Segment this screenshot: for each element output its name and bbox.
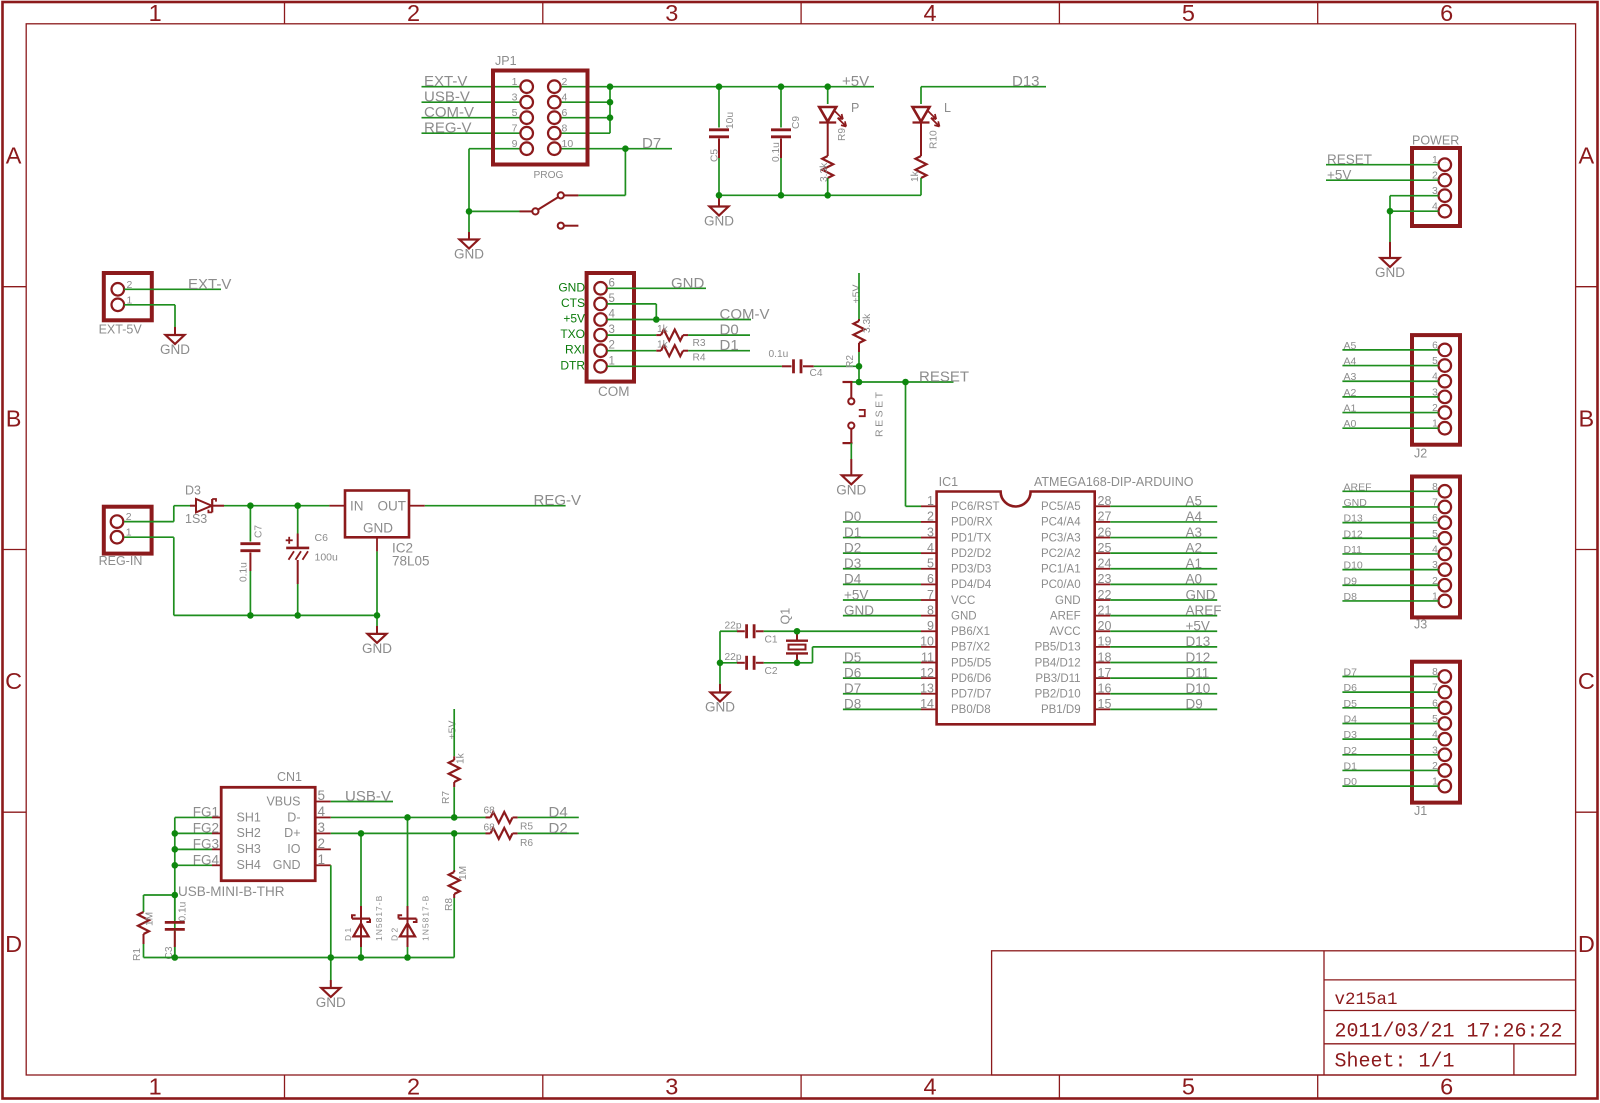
svg-text:0.1u: 0.1u [771,142,782,162]
svg-text:SH4: SH4 [237,858,261,872]
svg-text:A: A [1579,143,1595,169]
svg-text:GND: GND [951,610,977,622]
svg-text:68: 68 [484,805,496,816]
svg-text:FG3: FG3 [193,836,219,851]
svg-text:R8: R8 [444,898,455,911]
svg-text:D1: D1 [720,337,739,354]
svg-text:12: 12 [920,666,934,680]
svg-text:20: 20 [1098,619,1112,633]
svg-text:15: 15 [1098,697,1112,711]
svg-text:P: P [851,101,859,115]
svg-text:COM: COM [598,384,630,399]
svg-text:19: 19 [1098,635,1112,649]
svg-text:22p: 22p [725,652,742,663]
svg-text:B: B [6,406,22,432]
svg-text:REG-V: REG-V [534,492,582,509]
svg-text:0.1u: 0.1u [239,562,250,582]
svg-text:GND: GND [273,858,301,872]
svg-text:GND: GND [704,214,734,229]
svg-text:1k: 1k [657,340,669,351]
svg-text:D3: D3 [1344,729,1358,741]
svg-text:1S3: 1S3 [185,512,207,526]
svg-text:3: 3 [665,1073,678,1099]
svg-text:C: C [1578,668,1595,694]
svg-text:D0: D0 [1344,776,1358,788]
svg-text:8: 8 [927,603,934,617]
svg-text:SH3: SH3 [237,842,261,856]
svg-text:A1: A1 [1186,556,1203,571]
svg-text:R2: R2 [845,355,856,368]
svg-text:D1: D1 [844,525,861,540]
svg-text:1k: 1k [910,170,921,182]
svg-text:D: D [5,931,22,957]
svg-text:D6: D6 [1344,682,1358,694]
svg-text:J1: J1 [1414,804,1427,818]
svg-text:0.1u: 0.1u [178,902,189,922]
svg-text:1k: 1k [657,324,669,335]
svg-text:D 1: D 1 [343,928,353,942]
svg-text:11: 11 [921,650,934,664]
svg-text:C6: C6 [315,532,329,544]
svg-text:PROG: PROG [533,170,563,181]
svg-text:7: 7 [927,588,934,602]
svg-text:3: 3 [665,0,678,26]
svg-text:D2: D2 [1344,745,1358,757]
svg-text:EXT-V: EXT-V [188,276,231,293]
svg-text:1: 1 [927,494,934,508]
svg-text:PC3/A3: PC3/A3 [1041,532,1081,544]
svg-text:POWER: POWER [1412,134,1459,148]
svg-text:6: 6 [562,107,568,119]
svg-text:8: 8 [562,123,568,135]
svg-text:PC6/RST: PC6/RST [951,501,1000,513]
svg-text:R1: R1 [132,948,143,961]
svg-text:C1: C1 [765,635,778,646]
svg-text:6: 6 [1440,1073,1453,1099]
svg-text:10: 10 [920,635,934,649]
svg-text:GND: GND [1055,595,1081,607]
svg-text:5: 5 [1182,0,1195,26]
svg-text:OUT: OUT [378,499,407,514]
svg-text:JP1: JP1 [495,54,517,68]
svg-text:IC1: IC1 [939,475,959,489]
svg-text:RESET: RESET [919,369,969,386]
svg-text:FG1: FG1 [193,804,219,819]
svg-text:PB3/D11: PB3/D11 [1035,673,1080,685]
svg-text:PD3/D3: PD3/D3 [951,564,991,576]
svg-text:GND: GND [671,275,705,292]
svg-text:D+: D+ [284,826,300,840]
svg-text:Q1: Q1 [779,608,793,625]
svg-text:D9: D9 [1186,697,1203,712]
svg-text:4: 4 [562,92,568,104]
svg-text:2: 2 [562,76,568,88]
svg-text:2: 2 [407,0,420,26]
svg-text:5: 5 [927,557,934,571]
svg-text:D4: D4 [1344,713,1358,725]
svg-text:D0: D0 [720,322,739,339]
svg-text:PD0/RX: PD0/RX [951,517,993,529]
svg-text:100u: 100u [315,552,339,564]
svg-text:FG4: FG4 [193,852,220,867]
svg-text:9: 9 [512,138,518,150]
svg-text:+5V: +5V [842,73,869,90]
svg-text:A0: A0 [1186,572,1203,587]
svg-text:D: D [1578,931,1595,957]
svg-text:D7: D7 [1344,667,1358,679]
svg-text:PB0/D8: PB0/D8 [951,704,991,716]
svg-text:D13: D13 [1344,513,1363,525]
svg-text:R10: R10 [929,130,940,149]
svg-text:+5V: +5V [563,312,585,326]
svg-text:4: 4 [318,804,326,819]
svg-text:+5V: +5V [844,587,868,602]
svg-text:3.3k: 3.3k [862,313,873,333]
svg-text:PB4/D12: PB4/D12 [1035,657,1081,669]
svg-text:RESET: RESET [874,389,886,437]
svg-text:USB-MINI-B-THR: USB-MINI-B-THR [178,884,285,899]
svg-text:D10: D10 [1186,681,1211,696]
svg-text:C7: C7 [254,525,265,538]
svg-text:GND: GND [1375,265,1405,280]
svg-text:RESET: RESET [1327,152,1372,167]
svg-text:R7: R7 [441,791,452,804]
svg-text:D8: D8 [1344,591,1358,603]
svg-text:18: 18 [1098,650,1112,664]
svg-text:+5V: +5V [851,285,863,304]
svg-text:SH1: SH1 [237,810,261,824]
svg-text:R9: R9 [837,128,848,141]
svg-text:C5: C5 [710,149,721,162]
svg-text:EXT-V: EXT-V [424,73,467,90]
svg-text:GND: GND [1186,587,1216,602]
svg-text:A1: A1 [1344,403,1357,415]
svg-text:D5: D5 [844,650,861,665]
svg-text:3: 3 [927,525,934,539]
svg-text:D2: D2 [549,820,568,837]
svg-text:4: 4 [924,0,937,26]
svg-text:GND: GND [1344,497,1368,509]
svg-text:PD1/TX: PD1/TX [951,532,992,544]
svg-text:23: 23 [1098,572,1112,586]
svg-text:5: 5 [1182,1073,1195,1099]
svg-text:4: 4 [924,1073,937,1099]
svg-text:PC5/A5: PC5/A5 [1041,501,1081,513]
svg-text:D4: D4 [549,804,568,821]
svg-text:13: 13 [920,682,934,696]
svg-text:A2: A2 [1344,387,1357,399]
svg-text:v215a1: v215a1 [1335,990,1398,1010]
svg-text:2: 2 [407,1073,420,1099]
svg-text:A3: A3 [1344,371,1357,383]
svg-text:COM-V: COM-V [720,306,770,323]
svg-text:COM-V: COM-V [424,104,474,121]
svg-text:22p: 22p [725,621,742,632]
svg-text:3.3k: 3.3k [819,162,830,182]
svg-text:D10: D10 [1344,560,1363,572]
svg-text:6: 6 [927,572,934,586]
svg-text:AREF: AREF [1050,610,1081,622]
svg-text:J3: J3 [1414,618,1427,632]
svg-text:D13: D13 [1012,73,1040,90]
svg-text:D2: D2 [844,540,861,555]
svg-text:A3: A3 [1186,525,1203,540]
svg-text:PB7/X2: PB7/X2 [951,642,990,654]
svg-text:28: 28 [1098,494,1112,508]
svg-text:1: 1 [149,0,162,26]
svg-text:GND: GND [454,247,484,262]
svg-text:D5: D5 [1344,698,1358,710]
svg-text:PD7/D7: PD7/D7 [951,689,991,701]
svg-text:26: 26 [1098,525,1112,539]
svg-text:PB1/D9: PB1/D9 [1041,704,1081,716]
svg-text:D8: D8 [844,697,861,712]
svg-text:CTS: CTS [561,296,585,310]
svg-text:25: 25 [1098,541,1112,555]
svg-text:+5V: +5V [1327,168,1351,183]
svg-text:D6: D6 [844,665,861,680]
svg-text:D9: D9 [1344,575,1358,587]
svg-text:A5: A5 [1344,340,1357,352]
svg-text:GND: GND [316,995,346,1010]
svg-text:PB5/D13: PB5/D13 [1035,642,1081,654]
svg-text:1: 1 [318,852,326,867]
svg-text:R6: R6 [520,838,533,849]
svg-text:R4: R4 [693,353,706,364]
svg-text:D4: D4 [844,572,862,587]
svg-text:IN: IN [350,499,364,514]
svg-text:0.1u: 0.1u [769,349,789,360]
svg-text:5: 5 [512,107,518,119]
svg-text:VBUS: VBUS [266,794,300,808]
svg-text:17: 17 [1098,666,1112,680]
svg-text:VCC: VCC [951,595,975,607]
svg-text:D11: D11 [1186,665,1210,680]
svg-text:PD5/D5: PD5/D5 [951,657,991,669]
svg-text:2011/03/21 17:26:22: 2011/03/21 17:26:22 [1335,1021,1563,1044]
svg-text:27: 27 [1098,510,1112,524]
svg-text:3: 3 [318,820,326,835]
svg-text:D7: D7 [844,681,861,696]
svg-text:GND: GND [705,700,735,715]
svg-text:PB6/X1: PB6/X1 [951,626,990,638]
svg-text:D1: D1 [1344,760,1358,772]
svg-text:ATMEGA168-DIP-ARDUINO: ATMEGA168-DIP-ARDUINO [1034,475,1194,489]
svg-text:1M: 1M [145,912,156,926]
svg-text:D7: D7 [642,135,661,152]
svg-text:PD2/D2: PD2/D2 [951,548,991,560]
svg-text:24: 24 [1098,557,1112,571]
svg-text:21: 21 [1098,603,1112,617]
svg-text:AREF: AREF [1186,603,1222,618]
svg-text:2: 2 [318,836,326,851]
svg-text:4: 4 [927,541,934,555]
svg-text:A4: A4 [1344,356,1357,368]
svg-text:FG2: FG2 [193,820,219,835]
svg-text:REG-V: REG-V [424,120,472,137]
svg-text:PC2/A2: PC2/A2 [1041,548,1081,560]
svg-text:GND: GND [836,482,866,497]
svg-text:RXI: RXI [565,343,585,357]
svg-text:16: 16 [1098,682,1112,696]
svg-text:D-: D- [287,810,300,824]
svg-text:D 2: D 2 [389,928,399,942]
svg-text:5: 5 [318,788,326,803]
svg-text:D3: D3 [185,483,201,497]
svg-text:78L05: 78L05 [392,554,430,569]
svg-text:GND: GND [362,641,392,656]
svg-text:PC1/A1: PC1/A1 [1041,564,1081,576]
svg-text:J2: J2 [1414,446,1427,460]
svg-text:L: L [944,101,951,115]
svg-text:REG-IN: REG-IN [99,554,143,568]
svg-text:PB2/D10: PB2/D10 [1035,689,1081,701]
svg-text:6: 6 [1440,0,1453,26]
svg-text:A0: A0 [1344,418,1357,430]
svg-text:A2: A2 [1186,540,1203,555]
svg-text:14: 14 [920,697,934,711]
svg-text:22: 22 [1098,588,1112,602]
svg-text:C: C [5,668,22,694]
svg-text:A: A [6,143,22,169]
svg-text:1N5817-B: 1N5817-B [374,895,384,941]
svg-text:10: 10 [562,138,574,150]
svg-text:PC4/A4: PC4/A4 [1041,517,1081,529]
svg-text:PD4/D4: PD4/D4 [951,579,992,591]
svg-text:10u: 10u [725,112,736,129]
svg-text:C9: C9 [791,116,802,129]
svg-text:D13: D13 [1186,634,1211,649]
svg-text:D12: D12 [1186,650,1211,665]
svg-text:+5V: +5V [447,721,459,740]
svg-text:PD6/D6: PD6/D6 [951,673,991,685]
svg-text:C4: C4 [810,368,823,379]
svg-text:SH2: SH2 [237,826,261,840]
svg-text:9: 9 [927,619,934,633]
svg-text:A5: A5 [1186,494,1203,509]
svg-text:USB-V: USB-V [424,89,470,106]
svg-text:GND: GND [160,342,190,357]
svg-text:R3: R3 [693,338,706,349]
svg-text:CN1: CN1 [277,770,302,784]
svg-text:2: 2 [927,510,934,524]
svg-text:C2: C2 [765,666,778,677]
svg-text:GND: GND [558,280,585,294]
svg-text:PC0/A0: PC0/A0 [1041,579,1081,591]
svg-text:USB-V: USB-V [345,788,391,805]
svg-text:1M: 1M [458,866,469,880]
svg-text:GND: GND [844,603,874,618]
svg-text:7: 7 [512,123,518,135]
svg-text:68: 68 [484,822,496,833]
svg-text:Sheet: 1/1: Sheet: 1/1 [1335,1051,1455,1074]
svg-text:A4: A4 [1186,509,1203,524]
svg-text:1k: 1k [456,752,467,764]
svg-text:AVCC: AVCC [1049,626,1080,638]
svg-text:TXO: TXO [560,327,585,341]
svg-text:R5: R5 [520,822,533,833]
svg-text:GND: GND [363,521,393,536]
svg-text:+5V: +5V [1186,619,1210,634]
svg-text:D3: D3 [844,556,861,571]
svg-text:1: 1 [149,1073,162,1099]
svg-text:D12: D12 [1344,528,1363,540]
svg-text:1N5817-B: 1N5817-B [421,895,431,941]
svg-text:DTR: DTR [560,358,585,372]
svg-text:AREF: AREF [1344,481,1372,493]
svg-text:1: 1 [512,76,518,88]
svg-text:EXT-5V: EXT-5V [99,322,143,336]
svg-text:D0: D0 [844,509,861,524]
svg-text:IO: IO [287,842,300,856]
svg-text:B: B [1579,406,1595,432]
svg-text:3: 3 [512,92,518,104]
svg-text:D11: D11 [1344,544,1363,556]
